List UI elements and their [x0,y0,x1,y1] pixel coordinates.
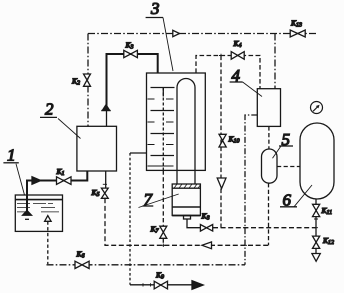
wire: thin drop from box 2 bottom to K5 [105,171,107,188]
wire: bottom blow-off line y=284.8 from x=130 through K9 to arrow [130,284,193,286]
svg-text:К4: К4 [233,39,242,49]
svg-text:К3: К3 [125,41,134,51]
valve K2 [84,74,91,86]
wire: dashed line y=245.3 from K5 drop corner to vessel 5 drop corner [105,198,269,245]
valve K6 [75,261,89,268]
node 2 label with leader [40,100,81,139]
node 3 label with leader [146,0,173,71]
wire: solid drain from vessel 7 nozzle down and right to K8 [187,219,201,228]
wire: dashed branch x=221 from K4 line through K10 down to K8 drain line [220,56,222,228]
flow arrow (hollow, left) on y=245.3 return line [202,242,212,249]
node 7 label with leader [139,190,179,209]
flow arrow (hollow, down) on K10 branch [217,178,226,189]
flow arrow (filled) at end of bottom blow-off line [192,281,203,290]
valve K10 [219,134,226,147]
box 2 (apparatus 2) [77,126,117,171]
valve K5 [101,188,108,198]
wire: thick pipe tank outlet up through arrow and K1 into box 2 bottom [27,171,87,212]
flow arrow (hollow) on top dash-dot header [173,30,180,36]
svg-text:К12: К12 [322,236,334,246]
wire: thick pipe check valve up to K3 line and down into column top [107,54,158,108]
svg-text:3: 3 [150,0,160,18]
wire: dashed line x=163.3 from column bottom through K7 to y=245.3 line [162,170,164,245]
node 5 label with leader [273,130,294,158]
valve K3 [124,50,138,57]
valve K4 [231,52,244,60]
svg-text:К11: К11 [321,206,333,216]
wire: dash-dot riser x=88 from header down through K2 into box 2 top [87,34,89,127]
svg-text:К2: К2 [71,77,80,87]
vessel 7 (weighing cell) [172,184,200,219]
wire: thin link check valve base to box 2 top [106,111,108,127]
wire: solid tap from x=130 line into column left wall y=153 [130,152,147,154]
wire: dash-dot branch from box 4 left side y=115 down x=245 to bottom dash-dot line [245,115,257,265]
wire: dashed gauge line inside column centre x=163.3 [162,88,164,171]
vent arrow (hollow, down) below K12 [312,254,320,262]
vessel 5 (small receiver) [262,149,278,183]
svg-text:К9: К9 [155,270,164,280]
svg-text:К1: К1 [56,167,65,177]
wire: riser vessel 6 bottom through K11 junction K12 to vent arrow [315,199,317,253]
pressure gauge on vessel 6 [311,102,323,114]
node 6 label with leader [280,185,312,209]
vessel 6 (large receiver) [300,123,334,199]
valve K7 [160,226,167,238]
wire: dashed drain line y=227.7 from K8 to riser of K11/K12 [213,227,316,229]
wire: dashed link vessel 5 right side to vessel 6 left side y=166.5 [277,166,300,168]
svg-text:1: 1 [7,146,16,165]
wire: dashed line from column top x=196 up and right through K4 down to box 4 top [196,56,260,89]
wire: dashed drop from tank arrow x=47.8 to bottom dash-dot line [47,221,49,264]
check valve (filled triangle) above box 2 [101,105,110,111]
valve K9 [154,281,167,289]
valve K1 [57,177,72,185]
junction ticks [103,54,318,287]
svg-text:К6: К6 [76,250,85,260]
tank 1 (feed tank) [15,195,62,231]
node 4 label with leader [230,66,262,97]
wire: dash-dot drop x=275 from header T-junction into box 4 top [274,34,276,89]
wire: dashed link box 4 bottom to vessel 5 top [268,126,270,149]
wire: short-dash line x=130 from column side tap down to bottom blow-off line [129,153,131,285]
svg-text:К8: К8 [201,212,210,222]
valve K11 [313,204,320,216]
flow arrow (filled) on tank outlet pipe before K1 [32,177,41,185]
node 1 label with leader [3,146,24,196]
wire: top dash-dot header line y=33.5 from K2 riser to right end [88,33,318,35]
svg-text:К7: К7 [150,225,160,235]
svg-text:2: 2 [45,100,54,119]
svg-text:К10: К10 [228,135,240,145]
valve K13 [290,30,305,37]
column 3 (measuring column) [147,73,206,184]
box 4 (separator) [257,89,280,127]
wire: dashed drop from vessel 5 bottom x=268.5 to y=245.3 line [268,183,270,245]
wire: bottom dash-dot drain line y=264.8 from tank drop to x=245 [47,264,246,266]
valve K12 [313,236,320,248]
svg-text:К13: К13 [290,19,302,29]
valve K8 [200,225,212,232]
svg-text:К5: К5 [91,188,100,198]
